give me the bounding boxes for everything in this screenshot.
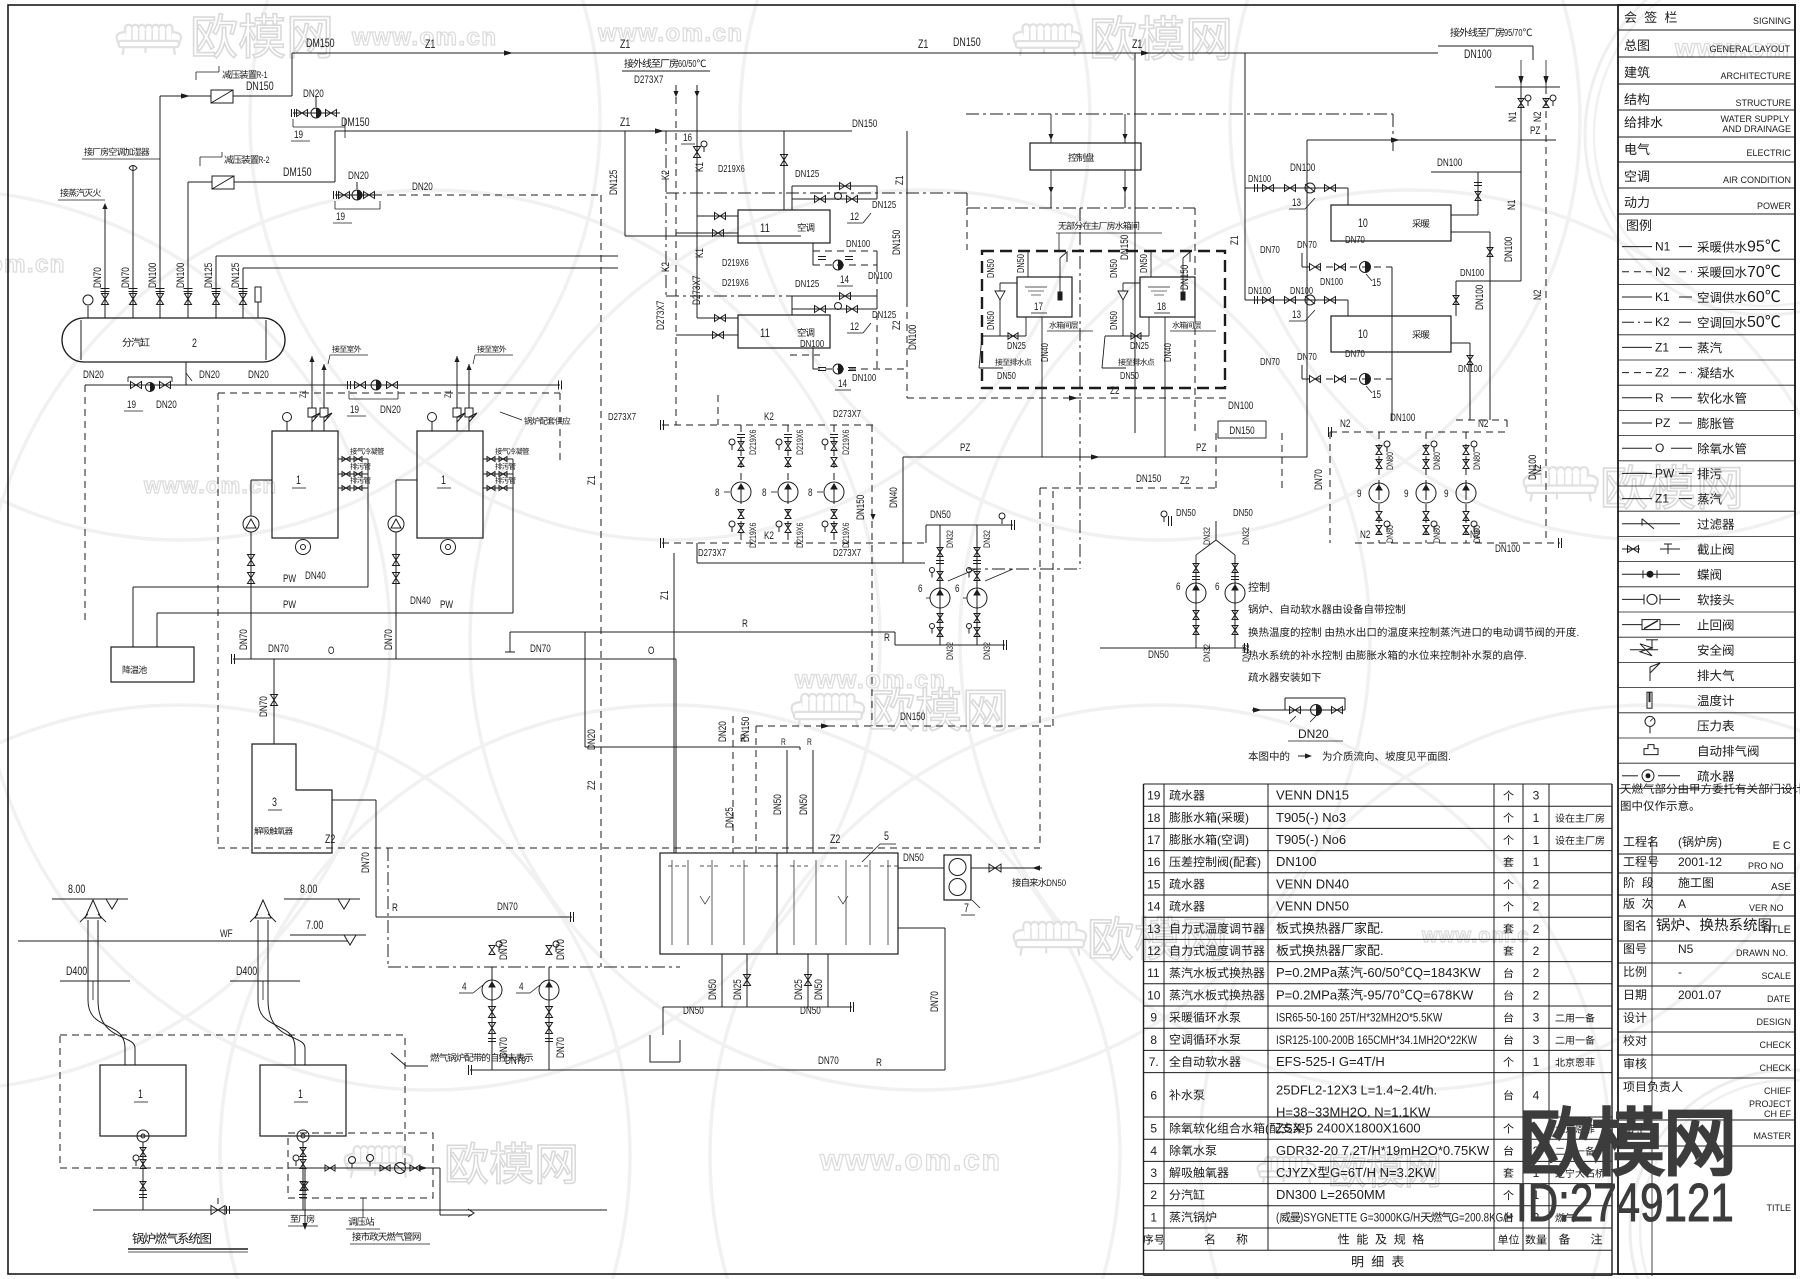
- svg-text:DN100: DN100: [175, 263, 187, 288]
- boiler B1 blowdown drop: [367, 459, 369, 587]
- svg-text:DN70: DN70: [497, 901, 518, 913]
- svg-text:DN100: DN100: [1290, 286, 1313, 297]
- svg-text:Z1: Z1: [298, 390, 308, 398]
- svg-text:POWER: POWER: [1757, 201, 1792, 211]
- svg-text:DN80: DN80: [1385, 452, 1396, 470]
- svg-text:N2: N2: [1655, 265, 1671, 279]
- svg-text:DN100: DN100: [1460, 267, 1484, 279]
- pipe N1N2 header: [1495, 86, 1560, 88]
- svg-text:DN100: DN100: [846, 238, 870, 250]
- pipe into deaerator: [273, 659, 275, 744]
- svg-text:DN70: DN70: [268, 643, 289, 655]
- svg-text:DN50: DN50: [986, 311, 997, 330]
- svg-text:O: O: [648, 645, 655, 657]
- boiler B2: [417, 431, 483, 538]
- svg-text:PW: PW: [283, 573, 297, 585]
- svg-text:3: 3: [272, 795, 277, 809]
- svg-text:D400: D400: [236, 964, 257, 978]
- svg-text:6: 6: [1150, 1088, 1157, 1102]
- svg-text:CJYZX: CJYZX: [1276, 1165, 1318, 1180]
- svg-text:K1: K1: [694, 248, 706, 258]
- watermark logo A4: [1023, 24, 1073, 41]
- svg-text:WATER SUPPLY: WATER SUPPLY: [1720, 114, 1789, 124]
- trap detail sketch: [1252, 709, 1345, 711]
- expansion tank 18: [1140, 277, 1195, 317]
- svg-text:6: 6: [955, 583, 960, 595]
- K2 to hx11b: [676, 334, 738, 336]
- svg-text:): ): [1257, 855, 1261, 869]
- svg-text:DN40: DN40: [1163, 343, 1174, 362]
- svg-text:DM150: DM150: [283, 165, 312, 179]
- trap set 19c: [347, 381, 349, 389]
- pipe 13b to hx: [1347, 300, 1349, 316]
- riser DN150 right: [1194, 208, 1196, 433]
- pipe DN70 drop mid: [1329, 432, 1331, 543]
- trap set 19b: [356, 182, 358, 189]
- legend header 图例: [1627, 220, 1638, 231]
- expansion tank 17: [1017, 277, 1072, 317]
- svg-text:DN70: DN70: [1297, 239, 1317, 251]
- svg-text:2001.07: 2001.07: [1678, 988, 1722, 1002]
- svg-text:2: 2: [1533, 944, 1540, 958]
- svg-text:N2: N2: [1340, 418, 1350, 430]
- svg-text:DN70: DN70: [530, 643, 551, 655]
- svg-text:DN70: DN70: [1297, 351, 1317, 363]
- tank room boundary: [982, 251, 1225, 388]
- pipe DN20 condensate: [375, 194, 601, 196]
- svg-text:WF: WF: [220, 928, 233, 940]
- svg-text:N1: N1: [1506, 200, 1518, 210]
- svg-text:DN50: DN50: [798, 794, 810, 815]
- svg-text:CHECK: CHECK: [1760, 1063, 1792, 1073]
- svg-text:DN80: DN80: [1432, 452, 1443, 470]
- pipe R bottom long: [470, 1069, 945, 1071]
- svg-text:13: 13: [1292, 309, 1301, 321]
- svg-text:DN50: DN50: [930, 509, 951, 521]
- label N2 riser: [1532, 112, 1544, 122]
- svg-text:DN100: DN100: [1474, 285, 1486, 310]
- svg-text:GDR32-20 7.2T/H*19mH2O*0.75KW: GDR32-20 7.2T/H*19mH2O*0.75KW: [1276, 1143, 1490, 1158]
- svg-text:DN20: DN20: [248, 369, 269, 381]
- pipe 13a to hx: [1347, 188, 1349, 205]
- svg-text:DESIGN: DESIGN: [1756, 1017, 1791, 1027]
- svg-text:K1: K1: [1655, 290, 1670, 304]
- svg-text:19: 19: [1147, 789, 1161, 803]
- svg-text:R: R: [1655, 391, 1664, 405]
- svg-text:DN50: DN50: [707, 979, 719, 1000]
- bypass 12a: [792, 185, 877, 187]
- svg-text:1: 1: [296, 473, 301, 487]
- svg-text:8: 8: [1150, 1033, 1157, 1047]
- svg-text:-: -: [1678, 965, 1682, 979]
- svg-text:8.00: 8.00: [68, 882, 86, 896]
- svg-text:19: 19: [127, 399, 136, 411]
- legend symbol rows: [1697, 518, 1709, 529]
- condensate drop mid: [876, 265, 878, 369]
- gas boiler 1: [100, 1065, 186, 1136]
- svg-text:DN25: DN25: [732, 979, 744, 1000]
- label K2 vert a: [660, 170, 672, 180]
- riser Z1 mid: [1134, 53, 1136, 433]
- svg-text:DN70: DN70: [92, 267, 104, 288]
- pipe N1 down: [1520, 172, 1522, 281]
- watermark logo E1: [354, 1146, 404, 1163]
- label 调压站: [348, 1217, 356, 1226]
- svg-text:T905(-) No3: T905(-) No3: [1276, 810, 1346, 825]
- site watermark hanzi: [1525, 1107, 1591, 1175]
- label N2 riser c: [1532, 465, 1544, 475]
- svg-text:DN150: DN150: [953, 35, 981, 49]
- svg-text:R: R: [742, 618, 748, 630]
- svg-text:DN40: DN40: [410, 595, 431, 607]
- svg-text:K2: K2: [764, 530, 774, 542]
- svg-text:DN20: DN20: [1298, 727, 1329, 741]
- decorative watermark circles: [0, 190, 390, 1090]
- svg-text:10: 10: [1358, 216, 1368, 230]
- svg-text:DRAWN NO.: DRAWN NO.: [1736, 948, 1788, 958]
- svg-text:R: R: [876, 1057, 882, 1069]
- svg-text:Q=1843KW: Q=1843KW: [1413, 965, 1481, 980]
- svg-text:(: (: [1217, 811, 1221, 825]
- svg-text:N1: N1: [1507, 112, 1519, 122]
- label 解吸触氧器: [254, 827, 262, 835]
- svg-text:D273X7: D273X7: [833, 408, 861, 420]
- svg-text:N2: N2: [1360, 529, 1370, 541]
- watermark logo A1: [125, 25, 172, 41]
- svg-text:VENN DN15: VENN DN15: [1276, 788, 1349, 803]
- vessel 分汽缸 2: [62, 318, 285, 362]
- label 接市政天燃气管网: [352, 1232, 361, 1241]
- notes text block: [1248, 582, 1258, 592]
- svg-text:13: 13: [1292, 197, 1301, 209]
- pipe R-2 out: [234, 181, 335, 183]
- svg-text:DN70: DN70: [383, 629, 395, 650]
- svg-text:PW: PW: [1655, 466, 1675, 480]
- svg-text:DN100: DN100: [800, 338, 824, 350]
- pipe deaerator out: [332, 799, 376, 801]
- bypass 12b: [792, 295, 877, 297]
- svg-text:9: 9: [1357, 488, 1362, 500]
- svg-text:N2: N2: [1532, 290, 1544, 300]
- svg-text:DM150: DM150: [306, 36, 335, 50]
- deaerator feed pumps 4: [491, 967, 493, 1070]
- svg-text:2: 2: [1150, 1188, 1157, 1202]
- control bus top: [966, 113, 1393, 115]
- svg-text:9: 9: [1150, 1011, 1157, 1025]
- svg-text:7.: 7.: [1149, 1055, 1159, 1069]
- regulator piping: [295, 1167, 440, 1169]
- svg-text:DN80: DN80: [1472, 452, 1483, 470]
- svg-text:3: 3: [1533, 1011, 1540, 1025]
- chimney arrow 2: [255, 900, 271, 918]
- svg-text:8: 8: [715, 487, 720, 499]
- title block signing rows: [1625, 11, 1637, 23]
- pipe 15 drop: [1391, 267, 1393, 420]
- svg-text:CH EF: CH EF: [1764, 1109, 1792, 1119]
- svg-text:om.cn: om.cn: [0, 251, 66, 278]
- svg-text:5: 5: [1150, 1122, 1157, 1136]
- svg-text:11: 11: [760, 221, 770, 235]
- pipe DN50 makeup left: [926, 524, 1013, 526]
- riser N2 main: [1545, 87, 1547, 543]
- svg-text:D273X7: D273X7: [634, 74, 663, 86]
- svg-text:SIGNING: SIGNING: [1753, 16, 1791, 26]
- svg-text:GENERAL LAYOUT: GENERAL LAYOUT: [1709, 44, 1790, 54]
- pipe R drop at 510: [509, 632, 511, 652]
- labels riser Z2 left: [855, 495, 867, 520]
- svg-text:DN150: DN150: [1229, 425, 1254, 437]
- svg-text:Z1: Z1: [1655, 340, 1669, 354]
- svg-text:O: O: [328, 645, 335, 657]
- svg-text:2: 2: [1533, 900, 1540, 914]
- K1 to hx11b: [697, 317, 738, 319]
- svg-text:K2: K2: [764, 411, 774, 423]
- svg-text:MASTER: MASTER: [1754, 1131, 1792, 1141]
- svg-text:DN100: DN100: [852, 372, 876, 384]
- hx10a return: [1451, 231, 1490, 233]
- svg-text:(: (: [1276, 1212, 1279, 1224]
- svg-text:16: 16: [683, 132, 692, 144]
- svg-text:DN40: DN40: [888, 487, 900, 508]
- valve16 on K1: [694, 147, 701, 158]
- svg-text:D219X6: D219X6: [722, 258, 749, 269]
- hx10b return: [1451, 342, 1470, 344]
- svg-text:3: 3: [1533, 789, 1540, 803]
- svg-text:15: 15: [1372, 277, 1381, 289]
- svg-text:DN70: DN70: [1260, 356, 1280, 368]
- svg-text:D219X6: D219X6: [718, 164, 745, 175]
- svg-text:DN20: DN20: [348, 170, 369, 182]
- svg-text:70: 70: [1747, 264, 1765, 281]
- svg-text:1: 1: [1150, 1210, 1157, 1224]
- svg-text:STRUCTURE: STRUCTURE: [1736, 98, 1792, 108]
- svg-text:95: 95: [1747, 239, 1765, 256]
- svg-text:DN80: DN80: [1385, 525, 1396, 543]
- svg-text:14: 14: [840, 274, 849, 286]
- svg-text:O: O: [1655, 441, 1664, 455]
- svg-text:Z1: Z1: [425, 37, 436, 51]
- svg-text:4: 4: [1533, 1088, 1540, 1102]
- tank 5 internals: [668, 865, 686, 867]
- exchanger 11b: [738, 315, 830, 348]
- branch to plant: [304, 1168, 306, 1228]
- svg-text:19: 19: [294, 129, 303, 141]
- svg-text:.: .: [1448, 751, 1451, 763]
- pipe Z2 mid dashed: [1040, 487, 1216, 489]
- svg-text:1: 1: [1533, 811, 1540, 825]
- svg-text:DN50: DN50: [772, 794, 784, 815]
- svg-text:K1: K1: [694, 162, 706, 172]
- svg-text:14: 14: [838, 378, 847, 390]
- svg-text:R: R: [740, 733, 746, 745]
- svg-text:4: 4: [519, 981, 524, 993]
- svg-text:DN50: DN50: [1120, 371, 1139, 382]
- boiler1 gas drop: [142, 1142, 144, 1210]
- pipe city water: [971, 867, 1042, 869]
- svg-text:DN150: DN150: [1179, 265, 1191, 290]
- svg-text:G=6T/H N=3.2KW: G=6T/H N=3.2KW: [1330, 1165, 1436, 1180]
- svg-text:9: 9: [1404, 488, 1409, 500]
- svg-text:DN50: DN50: [813, 979, 825, 1000]
- svg-text:DN50: DN50: [997, 371, 1016, 382]
- label DN100 right rot: [1527, 455, 1539, 480]
- label K1 vert a: [694, 162, 706, 172]
- svg-text:15: 15: [1372, 389, 1381, 401]
- svg-text:DN50: DN50: [1139, 254, 1150, 273]
- svg-text:Z2: Z2: [891, 321, 903, 330]
- pipe R lower: [585, 746, 800, 748]
- labels tank inflow: [717, 721, 729, 742]
- svg-text:DN100: DN100: [1464, 47, 1492, 61]
- svg-text:Z1: Z1: [443, 390, 453, 398]
- vessel gauge: [87, 306, 89, 318]
- svg-text:19: 19: [336, 211, 345, 223]
- pipe R upper: [376, 916, 572, 918]
- flow arrow top1: [504, 50, 513, 55]
- svg-text:DN100: DN100: [1503, 237, 1515, 262]
- label to plant 60/50: [624, 59, 633, 68]
- note flow direction: [1248, 751, 1258, 761]
- pipe PW drops to pool: [132, 587, 134, 647]
- svg-text:DN25: DN25: [1007, 341, 1026, 352]
- legend line-type rows: [1622, 246, 1652, 248]
- svg-text:DM150: DM150: [341, 115, 370, 129]
- svg-text:DN50: DN50: [1233, 507, 1253, 519]
- svg-text:13: 13: [1147, 922, 1161, 936]
- boiler room boundary: [218, 392, 560, 394]
- svg-text:DN100: DN100: [1527, 455, 1539, 480]
- svg-text:DN100: DN100: [1290, 162, 1315, 174]
- svg-text:D219X6: D219X6: [748, 523, 759, 548]
- hx 10b: [1331, 316, 1451, 352]
- svg-text:EFS-525-I G=4T/H: EFS-525-I G=4T/H: [1276, 1054, 1385, 1069]
- softener 7: [944, 855, 971, 900]
- svg-text:Z2: Z2: [586, 781, 598, 790]
- svg-text:Z2: Z2: [1180, 475, 1189, 487]
- svg-text:9: 9: [1444, 488, 1449, 500]
- svg-text:DN100: DN100: [1248, 286, 1271, 297]
- svg-text:TITLE: TITLE: [1767, 1203, 1792, 1213]
- svg-text:R-2: R-2: [258, 155, 269, 166]
- svg-text:www.om.cn: www.om.cn: [819, 1144, 1002, 1177]
- svg-text:Z2: Z2: [1655, 366, 1669, 380]
- svg-text:6: 6: [918, 583, 923, 595]
- regulator 13a: [1245, 187, 1348, 189]
- pipe Z2 from tanks: [907, 397, 1230, 399]
- svg-text:DN32: DN32: [1202, 527, 1213, 545]
- svg-text:16: 16: [1147, 855, 1161, 869]
- svg-text:25DFL2-12X3 L=1.4~2.4t/h.: 25DFL2-12X3 L=1.4~2.4t/h.: [1276, 1082, 1437, 1097]
- svg-text:DN70: DN70: [818, 1055, 839, 1067]
- chimney stack 2: [258, 920, 295, 1065]
- svg-text:): ): [1245, 833, 1249, 847]
- svg-text:VENN DN40: VENN DN40: [1276, 876, 1349, 891]
- drain valve set near vessel: [128, 376, 172, 378]
- svg-text:Z1: Z1: [1655, 492, 1669, 506]
- tank drain manifold: [663, 1006, 852, 1008]
- svg-text:ZSX-5 2400X1800X1600: ZSX-5 2400X1800X1600: [1276, 1121, 1421, 1136]
- pipe Z1 steam main top: [292, 52, 1438, 54]
- svg-text:11: 11: [760, 326, 770, 340]
- K1 to hx11a: [697, 215, 738, 217]
- svg-text:12: 12: [1147, 944, 1161, 958]
- svg-text:50: 50: [1747, 314, 1765, 331]
- svg-text:(: (: [1229, 855, 1233, 869]
- svg-text:2: 2: [1533, 877, 1540, 891]
- svg-text:17: 17: [1147, 833, 1161, 847]
- label Z1 drop right: [1229, 236, 1241, 245]
- svg-text:DN32: DN32: [1241, 527, 1252, 545]
- svg-text:DN50: DN50: [1016, 254, 1027, 273]
- pipe DN50 to softener: [898, 867, 944, 869]
- svg-text:A: A: [1678, 897, 1686, 911]
- svg-text:PRO NO: PRO NO: [1748, 861, 1784, 871]
- svg-text:2: 2: [1533, 966, 1540, 980]
- boiler B2 blowdown drop: [512, 459, 514, 613]
- svg-text:11: 11: [1147, 966, 1160, 980]
- svg-text:DN100: DN100: [1495, 543, 1520, 555]
- gas main pipe: [93, 1209, 607, 1211]
- cooling pool 降温池: [111, 647, 194, 682]
- svg-text:Z1: Z1: [586, 476, 598, 485]
- svg-text:D219X6: D219X6: [722, 278, 749, 289]
- svg-text:DN20: DN20: [83, 369, 104, 381]
- watermark logo C2: [801, 694, 854, 712]
- svg-text:1: 1: [1533, 833, 1540, 847]
- svg-text:10: 10: [1358, 327, 1368, 341]
- svg-text:DN125: DN125: [203, 263, 215, 288]
- label 接蒸汽灭火: [60, 188, 68, 196]
- svg-text:DN70: DN70: [238, 629, 250, 650]
- svg-text:N2: N2: [1478, 418, 1488, 430]
- legend note: [1620, 784, 1631, 794]
- steam branch 11a: [783, 131, 785, 210]
- svg-text:www.om.c: www.om.c: [1421, 925, 1530, 947]
- svg-text:DN70: DN70: [555, 939, 567, 960]
- svg-text:14: 14: [1147, 900, 1161, 914]
- svg-text:N1: N1: [1655, 240, 1671, 254]
- svg-text:VENN DN50: VENN DN50: [1276, 899, 1349, 914]
- svg-text:DN70: DN70: [1313, 469, 1325, 490]
- riser DN20 drop: [600, 195, 602, 967]
- svg-text:Z1: Z1: [659, 591, 671, 600]
- svg-text:DN150: DN150: [1136, 473, 1161, 485]
- watermark logo E3: [1265, 1157, 1308, 1171]
- riser DN150 boxed: [1215, 433, 1217, 488]
- svg-text:CHECK: CHECK: [1760, 1040, 1792, 1050]
- svg-text:DN100: DN100: [1390, 412, 1415, 424]
- svg-text:8: 8: [762, 487, 767, 499]
- steam inlet 11b: [791, 309, 793, 315]
- svg-text:18: 18: [1157, 301, 1166, 313]
- svg-text:ELECTRIC: ELECTRIC: [1746, 148, 1791, 158]
- condensate 14a: [812, 243, 814, 265]
- label DN70 vert right: [929, 991, 941, 1012]
- svg-text:Z1: Z1: [620, 115, 631, 129]
- deaerator box 3: [252, 744, 332, 853]
- label 无部分在主厂房水箱间: [1058, 222, 1066, 230]
- flow arrow top2: [1141, 50, 1150, 55]
- control panel taps: [1050, 114, 1052, 143]
- svg-text:DN20: DN20: [717, 721, 729, 742]
- boiler2 gas drop: [302, 1142, 304, 1210]
- svg-text:3: 3: [1150, 1166, 1157, 1180]
- svg-text:12: 12: [850, 321, 859, 333]
- svg-text:ASE: ASE: [1771, 882, 1791, 893]
- svg-text:PZ: PZ: [960, 442, 971, 454]
- makeup pumps 6 left pair: [939, 525, 941, 645]
- reducing valve R-1: [160, 95, 211, 97]
